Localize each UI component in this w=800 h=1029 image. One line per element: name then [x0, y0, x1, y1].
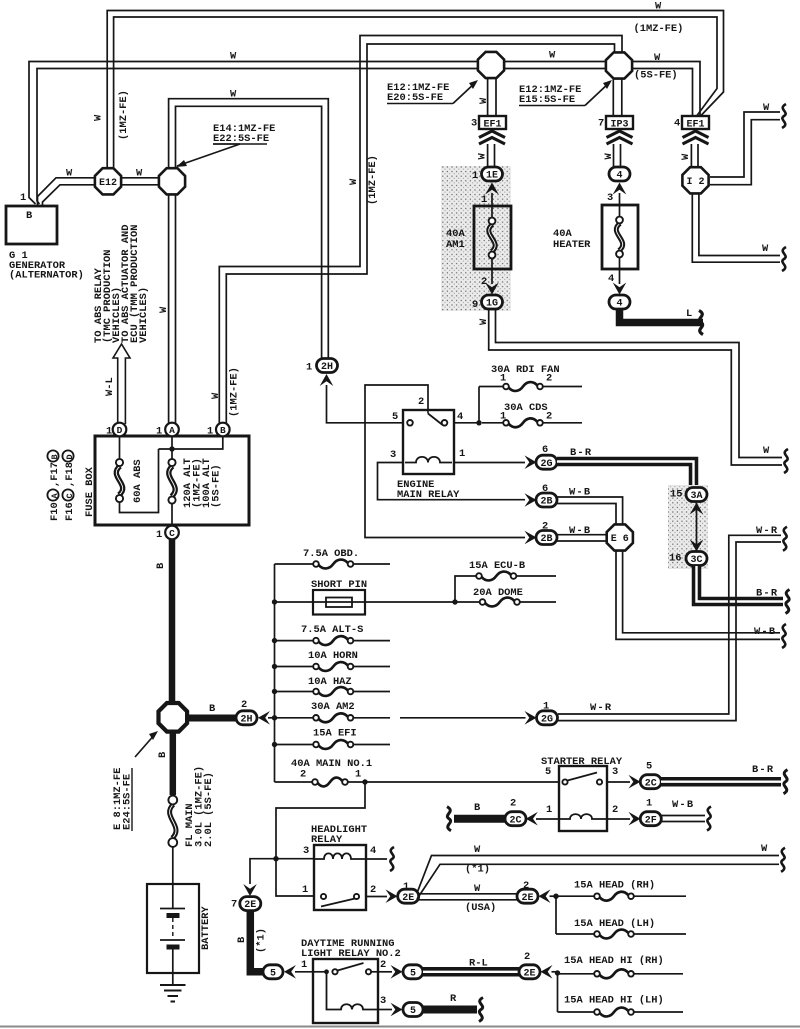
- svg-text:W: W: [66, 168, 73, 180]
- wire relay pin3 to 2B-6: [378, 463, 526, 500]
- break symbol W-B starter: [707, 807, 711, 831]
- arrow right into 5-2: [391, 965, 403, 979]
- svg-text:10A HORN: 10A HORN: [308, 650, 358, 662]
- svg-text:EF1: EF1: [483, 120, 501, 131]
- svg-text:4: 4: [674, 118, 680, 130]
- wire pair IP3 to oval 4: [614, 144, 621, 167]
- wire pin3 to 2C-5: [607, 781, 630, 783]
- label TO ABS RELAY rotated block: [93, 225, 150, 343]
- wire pair E12 to E14: [121, 178, 159, 185]
- svg-text:W: W: [477, 153, 489, 160]
- arrow down into 2E-7: [243, 884, 257, 896]
- svg-text:B: B: [209, 703, 216, 715]
- svg-text:FUSE BOX: FUSE BOX: [84, 466, 96, 517]
- label F10A F17B rotated line1: [47, 450, 61, 521]
- label 40A AM1: [446, 228, 465, 251]
- junction connector E12: [95, 168, 121, 194]
- svg-text:(USA): (USA): [465, 902, 496, 914]
- oval connector 2C-2: [505, 812, 526, 827]
- ground symbol: [160, 973, 186, 1002]
- thick striped wire B-R 2G to 3A: [557, 462, 694, 487]
- headlight relay box: [314, 845, 366, 910]
- thick wire R: [423, 1006, 477, 1014]
- fuse 15A HEAD LH: [556, 896, 686, 938]
- wire pair W-B from 2F: [661, 816, 705, 822]
- thick striped wire R-L: [423, 967, 519, 977]
- svg-text:E12: E12: [99, 178, 117, 189]
- wire pin1 to 2C-2: [536, 818, 559, 820]
- pointer arrow to E15: [585, 80, 612, 106]
- arrow left into 2H lower: [258, 711, 270, 725]
- fuse 30A RDI FAN: [479, 364, 582, 391]
- battery symbol: [160, 884, 185, 973]
- wire W from 1G to right break: [489, 309, 782, 465]
- wire AM1 to 1G: [481, 269, 492, 288]
- wire FL MAIN to battery: [172, 847, 174, 884]
- label G 1 GENERATOR (ALTERNATOR): [9, 250, 84, 282]
- svg-text:W: W: [93, 114, 105, 121]
- wire pair W-R break to 2G-1: [558, 535, 781, 720]
- arrow up into oval 4: [613, 183, 627, 195]
- svg-text:W-R: W-R: [756, 525, 778, 537]
- svg-text:1: 1: [472, 170, 478, 182]
- svg-text:B: B: [474, 802, 481, 814]
- svg-text:15A HEAD (LH): 15A HEAD (LH): [574, 918, 655, 930]
- svg-text:3C: 3C: [690, 555, 702, 566]
- oval connector 4 upper: [609, 167, 630, 182]
- wire pair EF1-3 to 1E: [488, 144, 495, 167]
- oval connector 1E: [472, 167, 503, 182]
- oval connector 2B-6: [536, 493, 557, 508]
- svg-text:4: 4: [616, 171, 622, 182]
- connector box 7 IP3: [598, 116, 633, 131]
- svg-text:2: 2: [510, 798, 516, 810]
- label 40A HEATER: [553, 228, 591, 251]
- break symbol B-R starter: [784, 770, 788, 794]
- wire 2H to relay pin5: [327, 385, 403, 423]
- wire 40A MAIN junction down-left to headlight area: [250, 782, 365, 896]
- svg-text:2F: 2F: [645, 815, 657, 826]
- break symbol L wire: [699, 311, 703, 335]
- relay switch: [407, 410, 447, 426]
- svg-text:15A HEAD HI (RH): 15A HEAD HI (RH): [564, 955, 664, 967]
- svg-text:2: 2: [546, 411, 552, 423]
- break symbol upper right: [782, 104, 786, 128]
- svg-text:2: 2: [380, 959, 386, 971]
- arrow left into 2C-2: [526, 812, 538, 826]
- label E12:1MZ-FE E20:5S-FE: [387, 82, 453, 104]
- junction connector E12/E20: [478, 52, 504, 78]
- wire pin3 to oval 5-3: [378, 1009, 392, 1011]
- svg-text:B-R: B-R: [756, 588, 778, 600]
- oval connector 2E-1: [398, 889, 419, 904]
- svg-text:W: W: [762, 243, 769, 255]
- oval connector 1G: [472, 295, 503, 311]
- break symbol W-R right: [783, 527, 787, 551]
- wire pair 2E-1 up to W break: [417, 856, 779, 900]
- oval connector 5-3: [403, 1003, 423, 1018]
- thick wire octagon to FL MAIN: [170, 731, 177, 795]
- oval connector 5 daytime-1: [263, 965, 283, 980]
- wire W pair B: fusebox B to E15 top: [219, 36, 622, 425]
- svg-text:1: 1: [306, 362, 312, 374]
- chevron under IP3: [607, 131, 633, 144]
- terminal C: [156, 526, 179, 541]
- fuse 30A AM2: [272, 701, 390, 722]
- wire pair E20 bottom to EF1-3 box: [488, 78, 496, 116]
- svg-text:7.5A OBD.: 7.5A OBD.: [303, 548, 359, 560]
- relay pin labels: [390, 396, 465, 461]
- fuse box 40A HEATER: [602, 205, 638, 269]
- svg-text:W: W: [230, 89, 237, 101]
- connector box 3 EF1: [471, 116, 506, 131]
- svg-text:3: 3: [612, 766, 618, 778]
- svg-text:5: 5: [410, 1006, 416, 1017]
- svg-text:W: W: [474, 844, 481, 856]
- fuse 15A EFI: [272, 728, 390, 749]
- arrow left into 2E-d: [541, 965, 553, 979]
- thick wire C to junction octagon: [169, 539, 176, 705]
- svg-text:(*1): (*1): [256, 928, 268, 953]
- svg-text:W: W: [478, 97, 490, 104]
- label F16C F18D rotated line2: [62, 450, 76, 521]
- oval connector 4 lower: [609, 295, 630, 310]
- label E14:1MZ-FE E22:5S-FE: [213, 123, 275, 145]
- pointer arrow to E14: [176, 144, 240, 167]
- svg-text:B: B: [236, 936, 248, 943]
- svg-text:A: A: [169, 425, 175, 436]
- terminal D: [106, 423, 126, 438]
- svg-text:1: 1: [546, 804, 552, 816]
- svg-text:1: 1: [500, 373, 506, 385]
- double arrow 3A to 3C: [690, 503, 704, 552]
- svg-text:5: 5: [545, 766, 551, 778]
- pointer arrow to octagon E8: [135, 731, 158, 757]
- svg-text:15A HEAD (RH): 15A HEAD (RH): [574, 880, 655, 892]
- junction connector E 6: [607, 524, 633, 550]
- arrow right into 2B-6: [525, 493, 537, 507]
- svg-text:5: 5: [270, 968, 276, 979]
- svg-text:W: W: [549, 50, 556, 62]
- arrow down into oval 4 lower: [613, 283, 627, 295]
- svg-text:15A ECU-B: 15A ECU-B: [469, 560, 526, 572]
- svg-text:3: 3: [303, 845, 309, 857]
- svg-text:60A ABS: 60A ABS: [132, 459, 144, 503]
- wire pair 2E-1 to 2E-2: [417, 894, 518, 900]
- svg-text:15A EFI: 15A EFI: [313, 728, 357, 740]
- svg-text:2: 2: [418, 396, 424, 408]
- oval connector 3C: [686, 552, 707, 567]
- daytime relay switch: [313, 963, 378, 974]
- svg-text:IP3: IP3: [610, 120, 628, 131]
- oval connector 2E-d: [519, 965, 540, 980]
- svg-text:W: W: [158, 306, 170, 313]
- svg-text:20A DOME: 20A DOME: [473, 587, 523, 599]
- svg-text:(1MZ-FE): (1MZ-FE): [367, 155, 379, 205]
- headlight relay pins: [302, 845, 376, 896]
- chevron under EF1-3: [479, 131, 505, 144]
- wire pair E6 bottom to W-B break: [616, 551, 780, 639]
- svg-text:2: 2: [300, 769, 306, 781]
- arrow right into 2C-5: [629, 775, 641, 789]
- svg-text:W: W: [763, 445, 770, 457]
- thick wire L: [620, 308, 704, 323]
- oval connector 2B-2: [536, 531, 557, 546]
- svg-text:I 2: I 2: [686, 177, 704, 188]
- svg-text:1: 1: [355, 769, 361, 781]
- generator box B: [6, 206, 57, 244]
- svg-text:9: 9: [472, 299, 478, 311]
- oval connector 2G: [536, 455, 557, 470]
- break symbol B-R right: [786, 590, 790, 614]
- svg-text:(ALTERNATOR): (ALTERNATOR): [9, 270, 84, 282]
- svg-text:VEHICLES): VEHICLES): [138, 287, 150, 343]
- label ENGINE MAIN RELAY: [397, 479, 460, 501]
- svg-text:16: 16: [669, 553, 681, 565]
- svg-text:3: 3: [380, 995, 386, 1007]
- pointer arrow to E20: [453, 80, 478, 104]
- svg-text:2C: 2C: [645, 778, 657, 789]
- wire 2E-2 to junction: [550, 894, 559, 899]
- hollow arrow up W-L: [113, 344, 130, 424]
- label DAYTIME RUNNING LIGHT RELAY NO.2: [301, 938, 401, 960]
- fuse 15A ECU-B: [455, 560, 556, 602]
- arrow right into 2G: [525, 455, 537, 469]
- svg-text:2: 2: [546, 373, 552, 385]
- terminal A: [156, 423, 179, 438]
- oval connector 2F: [640, 812, 661, 827]
- gray area AM1: [441, 166, 511, 311]
- fuse box 40A AM1: [474, 206, 511, 269]
- wire W pair: E14 top loop to 2H: [169, 99, 329, 360]
- wire heater to oval 4 lower: [608, 269, 620, 285]
- wire pair 2B-2 to E6 left: [557, 535, 606, 541]
- svg-text:E20:5S-FE: E20:5S-FE: [387, 92, 443, 104]
- arrow right into 2G-1: [525, 711, 537, 725]
- fuse 15A HEAD HI LH: [558, 974, 684, 1017]
- svg-text:B: B: [157, 751, 169, 758]
- arrow right into 2B-2: [525, 531, 537, 545]
- wire pin2 to 2F: [607, 818, 630, 820]
- svg-text:4: 4: [616, 299, 622, 310]
- label 120A ALT rotated: [182, 458, 223, 508]
- svg-text:1: 1: [106, 426, 112, 438]
- svg-text:D: D: [65, 454, 75, 459]
- wire pair I2 bottom to break: [692, 194, 780, 262]
- label FL MAIN rotated: [184, 766, 215, 847]
- svg-text:W-R: W-R: [590, 702, 612, 714]
- junction connector E12/E15: [606, 52, 632, 78]
- svg-text:1: 1: [646, 798, 652, 810]
- thick striped wire B-R from 2C-5: [661, 777, 781, 787]
- break symbol 1G wire: [784, 449, 788, 473]
- svg-text:1: 1: [302, 884, 308, 896]
- wire pair generator to E12: [38, 178, 96, 205]
- svg-text:2G: 2G: [541, 714, 553, 725]
- page bottom rule: [0, 1026, 800, 1028]
- oval connector 2C-5: [640, 775, 661, 790]
- break symbol W-B right: [782, 624, 786, 648]
- svg-text:B: B: [26, 210, 33, 222]
- svg-text:2H: 2H: [321, 362, 333, 373]
- svg-text:7: 7: [231, 899, 237, 911]
- wire pair E14 bottom to term A: [169, 193, 176, 424]
- wire W (1MZ-FE) pair A: E12 top loop to EF1-4: [107, 11, 723, 169]
- svg-text:1: 1: [207, 426, 213, 438]
- svg-text:B: B: [50, 454, 60, 459]
- fuse 40A MAIN NO.1: [275, 758, 559, 786]
- svg-text:2E: 2E: [521, 893, 533, 904]
- svg-text:(1MZ-FE): (1MZ-FE): [634, 23, 684, 35]
- svg-text:30A AM2: 30A AM2: [311, 701, 355, 713]
- svg-text:W-B: W-B: [754, 626, 776, 638]
- wire pin2 to 2E-1: [366, 896, 387, 898]
- junction connector I 2: [682, 167, 708, 193]
- wire pair 2B-6 to E6 top: [557, 497, 623, 524]
- svg-text:HEATER: HEATER: [553, 239, 591, 251]
- svg-text:1: 1: [459, 448, 465, 460]
- fuse bus vertical: [274, 564, 276, 782]
- svg-text:R: R: [450, 993, 457, 1005]
- svg-text:W: W: [474, 883, 481, 895]
- chevron under EF1-4: [683, 131, 709, 144]
- oval connector 2H lower: [236, 711, 257, 726]
- svg-text:W-B: W-B: [672, 799, 694, 811]
- fuse 15A HEAD HI RH: [558, 955, 684, 978]
- svg-text:W-L: W-L: [104, 377, 116, 396]
- oval connector 3A: [686, 488, 707, 503]
- break symbol R: [479, 998, 483, 1022]
- wire relay pin1 to 2G: [454, 462, 525, 464]
- label HEADLIGHT RELAY: [311, 824, 367, 846]
- svg-text:2G: 2G: [540, 459, 552, 470]
- wire pair I2 right to upper break: [710, 112, 780, 185]
- fuse box outline: [95, 436, 249, 525]
- wire pin2 to oval 5-2: [378, 971, 392, 973]
- svg-text:W: W: [761, 843, 768, 855]
- svg-text:2E: 2E: [244, 900, 256, 911]
- oval connector 2H upper: [317, 359, 338, 374]
- svg-text:(*1): (*1): [465, 864, 490, 876]
- wire 1E to AM1 fuse box: [481, 193, 492, 206]
- fuse 120A ALT: [159, 436, 223, 526]
- svg-text:5: 5: [410, 968, 416, 979]
- svg-text:W: W: [136, 168, 143, 180]
- svg-text:2B: 2B: [540, 497, 552, 508]
- svg-text:30A CDS: 30A CDS: [504, 402, 548, 414]
- svg-text:B: B: [220, 425, 226, 436]
- svg-text:W: W: [763, 102, 770, 114]
- fusible link AM1: [489, 206, 496, 269]
- arrow up into 1E: [485, 183, 499, 195]
- svg-text:E22:5S-FE: E22:5S-FE: [213, 133, 269, 145]
- fuse 7.5A OBD: [275, 548, 391, 568]
- headlight relay coil: [314, 853, 366, 859]
- svg-text:W: W: [680, 153, 692, 160]
- oval connector 2E-2: [517, 889, 538, 904]
- svg-text:2: 2: [612, 804, 618, 816]
- svg-text:2H: 2H: [240, 714, 252, 725]
- svg-text:15A HEAD HI (LH): 15A HEAD HI (LH): [564, 995, 664, 1007]
- svg-text:W: W: [655, 1, 662, 13]
- starter relay coil: [559, 814, 607, 819]
- fuse 15A HEAD RH: [556, 880, 686, 901]
- svg-text:2: 2: [524, 951, 530, 963]
- svg-text:1E: 1E: [486, 171, 498, 182]
- wire into 2G-1 from left: [400, 717, 526, 719]
- oval connector 5-2: [403, 965, 423, 980]
- svg-text:5: 5: [646, 761, 652, 773]
- break symbol B left: [447, 807, 451, 831]
- svg-text:D: D: [117, 425, 123, 436]
- arrow left into 2E-2: [539, 889, 551, 903]
- svg-text:1: 1: [20, 192, 26, 204]
- starter relay switch: [562, 773, 602, 785]
- arrow left into 5-1: [284, 965, 296, 979]
- svg-text:W: W: [210, 392, 222, 399]
- oval connector 2G-1: [537, 711, 558, 726]
- junction octagon E8: [159, 703, 188, 732]
- svg-text:BATTERY: BATTERY: [200, 906, 212, 950]
- svg-text:2B: 2B: [540, 534, 552, 545]
- junction connector E14/E22: [159, 168, 185, 194]
- thick wire B from 2E-7 to oval 5: [250, 910, 263, 972]
- terminal B: [207, 423, 230, 438]
- svg-text:2C: 2C: [509, 815, 521, 826]
- wire pair EF1-4 to I2: [691, 144, 698, 167]
- svg-text:F10: F10: [49, 502, 61, 521]
- wire W pair C: generator pin1 to E20/E15/EF1-4: [29, 62, 700, 205]
- arrow down into 1G: [485, 283, 499, 295]
- svg-text:,F17: ,F17: [49, 462, 61, 487]
- svg-text:E 6: E 6: [611, 534, 629, 545]
- arrow right into 2E-1: [386, 889, 398, 903]
- svg-text:AM1: AM1: [446, 239, 465, 251]
- svg-text:2: 2: [241, 699, 247, 711]
- wire arrow to daytime box: [295, 971, 313, 973]
- svg-text:C: C: [65, 493, 75, 498]
- relay coil: [405, 457, 452, 463]
- break symbol pin4: [390, 847, 394, 871]
- svg-text:W: W: [654, 52, 661, 64]
- arrow right into 2F: [629, 812, 641, 826]
- svg-text:C: C: [169, 528, 175, 539]
- svg-text:1: 1: [481, 194, 487, 206]
- daytime relay coil: [327, 972, 379, 1010]
- svg-text:F16: F16: [64, 502, 76, 521]
- svg-text:1: 1: [156, 426, 162, 438]
- thick striped wire B-R from 3C: [697, 566, 784, 602]
- fuse 10A HORN: [272, 650, 390, 671]
- svg-text:E15:5S-FE: E15:5S-FE: [519, 94, 575, 106]
- wire pin4 to break: [366, 858, 387, 860]
- wire oval4 to heater box: [607, 192, 620, 205]
- engine main relay box: [403, 410, 454, 474]
- svg-text:4: 4: [457, 411, 463, 423]
- svg-text:W: W: [603, 153, 615, 160]
- svg-text:(5S-FE): (5S-FE): [634, 70, 678, 82]
- wire arrow to bus: [268, 717, 275, 719]
- wire relay pin2 to 2B-2: [365, 385, 525, 538]
- daytime relay pins: [301, 959, 386, 1007]
- thick wire octagon to 2H: [186, 715, 236, 722]
- fuse 60A ABS: [116, 436, 159, 513]
- svg-text:2.0L (5S-FE): 2.0L (5S-FE): [203, 772, 215, 847]
- connector box 4 EF1: [674, 116, 709, 131]
- svg-text:7.5A ALT-S: 7.5A ALT-S: [301, 624, 363, 636]
- daytime relay box: [313, 959, 378, 1023]
- svg-text:10A HAZ: 10A HAZ: [308, 676, 352, 688]
